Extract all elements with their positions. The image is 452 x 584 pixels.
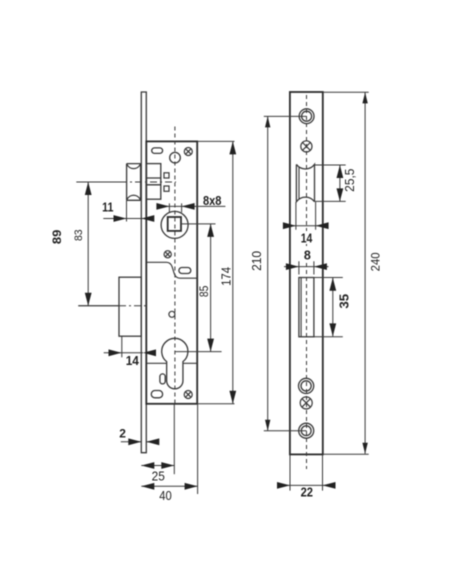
svg-text:240: 240 [371, 252, 383, 271]
top screw symbol (circled X) [301, 141, 312, 152]
dimension 22 (strip width) [278, 455, 336, 491]
roller cutout [296, 164, 314, 201]
svg-text:8x8: 8x8 [203, 193, 222, 208]
svg-text:2: 2 [119, 427, 126, 441]
deadbolt (side view) [119, 277, 141, 336]
bottom screw symbol (circled X) [184, 391, 192, 399]
lower countersunk hole [299, 378, 314, 393]
lever slot [299, 278, 314, 337]
dimension 240 [323, 92, 369, 454]
svg-text:14: 14 [301, 231, 313, 245]
small pin hole [169, 311, 175, 317]
dimension 40 (case width) [141, 405, 197, 495]
small vertical oval [160, 374, 165, 384]
dimension 85 [175, 224, 222, 352]
strip centre line [306, 95, 308, 469]
dimension 11 [103, 201, 152, 222]
dimension 83 arrows [85, 182, 92, 306]
lower screw symbol (circled X) [300, 397, 312, 409]
roller centre line [76, 181, 176, 183]
internal cover S-curve [146, 262, 197, 278]
faceplate bar (side view) [141, 92, 146, 453]
label 14 halo [299, 231, 314, 244]
dimension 210 [264, 116, 307, 430]
top round hole [170, 152, 181, 163]
case seam line [146, 362, 197, 364]
roller latch body inside case [146, 164, 161, 200]
dimension 8x8 [157, 203, 225, 212]
dimension 35 [332, 278, 334, 337]
vertical centre line of lock [174, 127, 176, 404]
roller bolt (barrel) [127, 164, 141, 201]
label 8 halo [302, 249, 314, 262]
top countersunk hole [299, 109, 314, 124]
dimension 25 (backset) [141, 405, 174, 475]
bottom oval slot [151, 391, 162, 398]
mid screw symbol (circled X) [164, 251, 171, 258]
top oval slot [152, 148, 163, 154]
svg-text:85: 85 [197, 285, 211, 297]
lock case outline [146, 141, 197, 403]
small square hole upper [164, 173, 169, 178]
faceplate strip outline [290, 92, 323, 454]
dimension 14 (cutout width) [283, 202, 328, 230]
svg-text:14: 14 [126, 354, 139, 368]
svg-text:25,5: 25,5 [343, 169, 357, 192]
svg-text:174: 174 [220, 267, 234, 286]
bottom countersunk hole [299, 423, 314, 438]
dimension 174 [197, 141, 234, 403]
svg-text:83: 83 [73, 229, 85, 241]
euro cylinder profile [162, 338, 188, 389]
svg-text:89: 89 [52, 230, 64, 245]
dimension 2 (faceplate thickness) [121, 441, 158, 443]
svg-text:210: 210 [250, 251, 264, 271]
small square hole lower [164, 186, 169, 191]
svg-text:8: 8 [304, 249, 311, 263]
dimension 14 (deadbolt throw) [104, 337, 143, 358]
mid oval slot [179, 268, 191, 274]
dimension 8 (slot width) [284, 261, 329, 274]
svg-text:11: 11 [102, 201, 113, 215]
slot extension lines [314, 278, 343, 337]
svg-text:25: 25 [152, 470, 165, 484]
svg-text:35: 35 [337, 294, 352, 309]
follower circle with 8x8 square spindle hole [161, 211, 188, 238]
deadbolt centre line [78, 305, 146, 307]
top screw symbol (circled X) [184, 148, 192, 156]
svg-text:22: 22 [301, 485, 313, 499]
svg-text:40: 40 [159, 489, 172, 503]
dimension 83 line [78, 182, 119, 306]
dimension 25,5 [315, 165, 346, 201]
